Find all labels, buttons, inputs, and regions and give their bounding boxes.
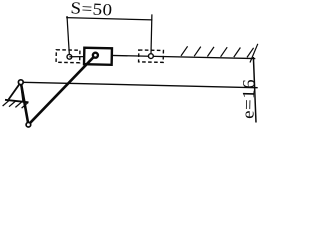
phantom slider box left (dashed) [56, 50, 80, 63]
dimension line S [66, 18, 152, 20]
slider centerline to guide [111, 55, 255, 58]
vertical dimension line e [253, 57, 256, 123]
crank link [21, 82, 29, 125]
guide hatching [181, 46, 254, 57]
crank pivot circle [18, 80, 23, 85]
support hatching [3, 100, 29, 108]
frame line through crank pivot [23, 82, 258, 87]
extension line left [67, 16, 69, 54]
link from left pin to slider [69, 56, 84, 58]
pin circle in right phantom box [149, 54, 154, 59]
svg-text:e=16: e=16 [238, 79, 258, 119]
slider block (solid) [84, 48, 112, 65]
end tick at guide right end [250, 44, 258, 63]
connecting rod [28, 55, 95, 125]
slider pin circle [93, 53, 98, 58]
extension line right [150, 14, 153, 53]
fixed pivot support triangle [5, 82, 29, 102]
phantom slider box right (dashed) [139, 50, 164, 62]
pin circle in left phantom box [67, 54, 72, 59]
svg-text:S=50: S=50 [70, 0, 113, 19]
crank-rod joint circle [26, 122, 31, 127]
